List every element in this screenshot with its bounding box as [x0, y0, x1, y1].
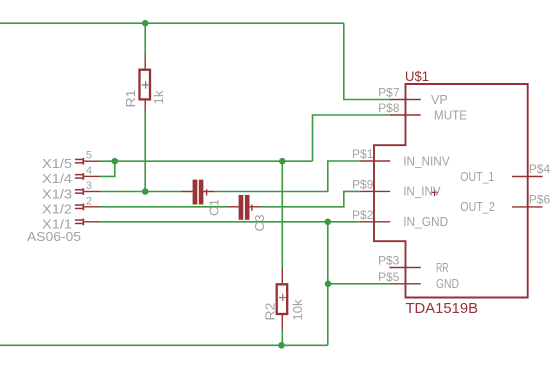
capacitor C3: [227, 195, 261, 220]
svg-text:P$8: P$8: [378, 101, 400, 115]
svg-text:P$4: P$4: [529, 162, 551, 176]
svg-text:AS06-05: AS06-05: [27, 229, 81, 244]
svg-text:P$9: P$9: [352, 177, 374, 191]
wire R2 column top: [281, 161, 283, 268]
wire X1/1 row to IN_GND: [100, 221, 360, 223]
svg-text:10k: 10k: [291, 299, 305, 321]
wire R1 top from rail: [144, 23, 146, 53]
pin P$4 OUT_1: [460, 162, 550, 184]
connector X1 pin 4: [75, 173, 100, 180]
wire X1/2 to C3: [100, 206, 227, 208]
svg-text:P$6: P$6: [529, 193, 551, 207]
wire R2 bottom to rail: [281, 330, 283, 345]
svg-text:IN_INV: IN_INV: [403, 185, 441, 199]
svg-text:R2: R2: [264, 302, 278, 320]
wire net X1/5 row: [100, 160, 313, 162]
resistor R1: [140, 53, 151, 113]
svg-text:U$1: U$1: [405, 68, 429, 84]
connector X1 pin 1: [75, 219, 100, 226]
node X1/4 X1/5 junction: [112, 158, 119, 165]
svg-text:3: 3: [86, 180, 92, 192]
pin P$7 VP: [378, 86, 448, 107]
svg-text:RR: RR: [436, 261, 449, 275]
svg-text:P$5: P$5: [378, 270, 400, 284]
svg-text:IN_NINV: IN_NINV: [403, 154, 450, 168]
svg-text:4: 4: [86, 165, 92, 177]
svg-text:TDA1519B: TDA1519B: [406, 301, 479, 317]
wire bottom rail: [0, 344, 328, 346]
part origin cross U$1: [431, 189, 439, 197]
svg-text:P$3: P$3: [378, 254, 400, 268]
wire GND pin stub: [328, 283, 390, 285]
svg-text:IN_GND: IN_GND: [403, 215, 448, 229]
connector X1 pin 2: [75, 204, 100, 211]
wire R1 bottom to node A: [144, 113, 146, 192]
svg-text:GND: GND: [436, 277, 459, 291]
wire MUTE riser: [313, 115, 390, 161]
wire top supply rail: [0, 22, 344, 24]
pin P$9 IN_INV: [352, 177, 441, 198]
node R2 bottom rail junction: [278, 342, 285, 349]
node R1 X1/3 junction: [142, 188, 149, 195]
capacitor C1: [181, 180, 215, 205]
wire C3 to IN_INV riser: [261, 191, 360, 206]
svg-text:C1: C1: [208, 199, 222, 216]
pin P$6 OUT_2: [460, 193, 550, 215]
connector X1 pin 3: [75, 188, 100, 195]
svg-text:VP: VP: [431, 93, 448, 107]
resistor R2: [277, 268, 288, 330]
pin P$5 GND: [378, 270, 459, 291]
node rail R1 junction: [142, 20, 149, 27]
svg-text:OUT_1: OUT_1: [460, 170, 494, 184]
svg-text:5: 5: [86, 150, 92, 162]
node X1/1 ground column junction: [325, 219, 332, 226]
wire C1 to IN_NINV riser: [215, 161, 360, 192]
svg-text:P$1: P$1: [352, 147, 374, 161]
svg-text:2: 2: [86, 195, 92, 207]
op-amp U1 TDA1519B outline: [374, 84, 528, 298]
svg-text:1k: 1k: [152, 90, 166, 105]
svg-text:C3: C3: [253, 214, 267, 231]
svg-text:X1/2: X1/2: [42, 203, 72, 217]
wire X1/3 to C1: [100, 191, 181, 193]
wire VP riser from rail: [344, 23, 390, 99]
pin P$8 MUTE: [378, 101, 467, 122]
pin P$1 IN_NINV: [352, 147, 450, 168]
pin P$3 RR: [378, 254, 449, 275]
pin P$2 IN_GND: [352, 208, 448, 229]
node R2 column X1/5 junction: [279, 158, 286, 165]
node GND pin junction: [325, 281, 332, 288]
connector X1 pin 5: [75, 158, 100, 165]
svg-text:X1/4: X1/4: [42, 172, 72, 186]
svg-text:X1/5: X1/5: [42, 157, 72, 171]
svg-text:R1: R1: [124, 89, 138, 107]
svg-text:OUT_2: OUT_2: [460, 200, 495, 214]
wire ground column: [327, 222, 329, 345]
svg-text:P$2: P$2: [352, 208, 374, 222]
svg-text:MUTE: MUTE: [434, 108, 467, 122]
wire X1/4 jog up: [100, 161, 115, 176]
svg-text:X1/3: X1/3: [42, 187, 72, 201]
svg-text:P$7: P$7: [378, 86, 400, 100]
